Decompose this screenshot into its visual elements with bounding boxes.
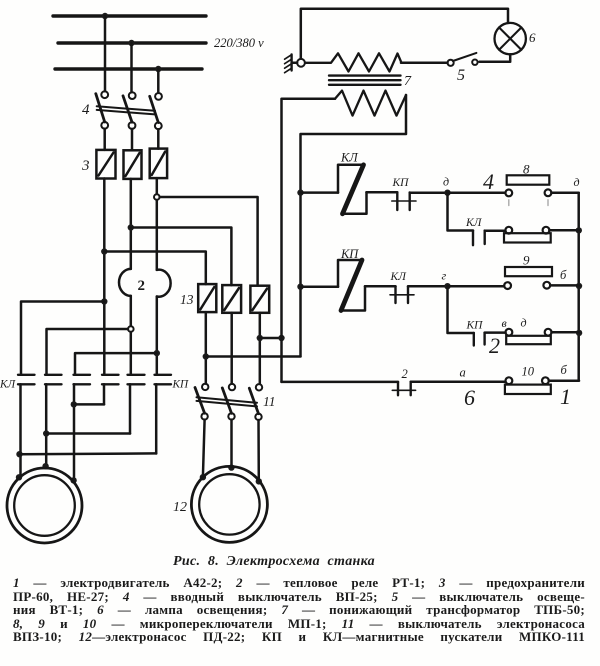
fuse F3c: [150, 149, 167, 179]
svg-text:КЛ: КЛ: [390, 271, 408, 283]
contactor KP main contacts (3 poles): [102, 375, 171, 385]
svg-text:4: 4: [483, 169, 494, 194]
contact KL (NC) in row2: [390, 286, 414, 303]
wire S5 to transformer primary: [401, 62, 448, 65]
junction phase C to KL pole3: [154, 350, 160, 356]
wire control feed to coil bus: [206, 355, 301, 358]
switch S4 blades: [96, 94, 105, 122]
wire microswitch 8 to right bus: [551, 192, 578, 195]
transformer T7 core: [329, 76, 401, 85]
fuse F3a: [96, 150, 115, 179]
transformer T7 lower winding: [335, 91, 406, 116]
junction pole3/pole4 link: [71, 401, 77, 407]
wire phase C to KL pole3: [75, 353, 157, 374]
microswitch 9 actuator bar: [505, 267, 552, 276]
contactor KL main contacts (3 poles): [18, 375, 90, 385]
svg-text:5: 5: [457, 67, 465, 84]
junction bus L2 / phase B: [128, 40, 134, 46]
switch S11 linkage: [197, 397, 258, 406]
junction phase A to KL pole1: [101, 298, 107, 304]
wire coil KL to contact KP: [367, 191, 398, 194]
junction pole1/pole6 link: [16, 451, 22, 457]
wire node d down to aux contact KL: [448, 193, 474, 231]
svg-text:13: 13: [180, 292, 194, 307]
junction coil bus row1: [297, 189, 303, 195]
microswitch 8 terminals: [505, 190, 512, 197]
wire KP pole5 down: [129, 384, 132, 433]
wire microswitch row2b to right bus: [552, 331, 580, 334]
switch S5: [448, 53, 478, 66]
svg-text:КП: КП: [392, 177, 410, 189]
wire phase A to KL pole1: [21, 302, 104, 374]
svg-text:10: 10: [522, 365, 535, 379]
caption: [0, 554, 552, 570]
power bus L2: [58, 41, 206, 44]
motor M1 (main drive): [7, 468, 82, 543]
wire F13c to switch S11: [259, 313, 262, 384]
svg-text:1: 1: [560, 384, 571, 409]
wire link pole3-pole4: [74, 403, 104, 406]
wire tap B to fuse F13b: [131, 228, 232, 286]
fuse F13b: [222, 285, 241, 313]
motor M12 terminal dots: [200, 474, 206, 480]
wire lamp loop top: [301, 9, 508, 59]
microswitch 10 actuator bar: [505, 385, 551, 394]
svg-text:д: д: [521, 316, 527, 330]
svg-text:2: 2: [138, 278, 146, 294]
wire phase C drop: [157, 69, 160, 93]
wire bus to coil KP: [301, 285, 339, 288]
node g junction: [444, 283, 450, 289]
svg-text:11: 11: [263, 394, 276, 409]
wire thermal contact to microswitch 10: [411, 381, 506, 384]
svg-text:КЛ: КЛ: [0, 379, 17, 391]
junction phase B to KL pole2: [128, 326, 134, 332]
junction phase B tap: [128, 224, 134, 230]
wire phase B below fuse (with heater bulge): [130, 179, 133, 375]
wire KL pole1 to motor M1: [19, 384, 22, 476]
power bus L3: [55, 67, 202, 70]
legend text: [13, 576, 585, 644]
wire link pole2-pole5: [46, 432, 130, 435]
wire phase C below fuse (with heater bulge): [156, 178, 159, 375]
wire S4 to fuses F3: [105, 129, 159, 151]
switch S4 linkage: [97, 106, 155, 114]
junction bus L1 / phase A: [102, 13, 108, 19]
wire microswitch 10 to right bus: [549, 379, 579, 382]
microswitch 8 plungers: [509, 200, 548, 206]
wire phase A drop: [104, 16, 107, 91]
wire F13a to switch S11: [205, 312, 208, 384]
svg-text:КП: КП: [172, 379, 190, 391]
wire aux KP to microswitch row2b: [485, 331, 506, 334]
svg-text:КП: КП: [340, 247, 359, 261]
fuse F3b: [124, 150, 142, 179]
wire lower winding right to coil bus: [301, 95, 407, 356]
microswitch row2b actuator bar: [506, 336, 551, 344]
wire contact KP to node d: [410, 191, 448, 194]
wire lamp to switch S5: [480, 54, 511, 62]
wire contact KL to node g: [408, 285, 448, 288]
wire link pole1-pole6: [20, 452, 157, 455]
svg-text:6: 6: [529, 30, 536, 45]
wire node g to microswitch 9: [448, 285, 505, 288]
wires S11 to motor M12: [203, 420, 259, 482]
wire node g down to aux contact KP: [448, 286, 474, 333]
microswitch 10 terminals: [506, 377, 513, 384]
transformer T7 upper winding: [305, 53, 402, 71]
svg-text:КП: КП: [466, 320, 484, 332]
switch S11 upper terminals: [202, 384, 208, 390]
wire tap to control common node: [260, 337, 282, 340]
junction control common node: [278, 335, 284, 341]
svg-text:3: 3: [81, 158, 90, 174]
contact KP (NC) in row1: [392, 192, 416, 210]
contactor coil KP: [338, 260, 365, 311]
wire tap C to fuse F13c: [160, 197, 258, 285]
svg-text:в: в: [502, 316, 507, 330]
svg-text:7: 7: [404, 74, 412, 89]
wire KL pole3 to motor M1: [73, 384, 76, 480]
wire bottom control row left: [282, 381, 399, 384]
wire aux KL to microswitch row1b: [485, 230, 506, 233]
svg-text:б: б: [561, 363, 568, 377]
switch S11 lower terminals: [201, 413, 207, 419]
motor M1 terminal dots: [16, 474, 22, 480]
svg-text:9: 9: [523, 253, 530, 268]
junction control feed on F13a wire: [203, 353, 209, 359]
wire tap A to fuse F13a: [104, 252, 206, 285]
microswitch row1b terminals: [505, 227, 512, 234]
wire microswitch 9 to right bus: [550, 284, 579, 287]
svg-text:д: д: [443, 175, 449, 189]
switch S4 upper terminals: [101, 91, 108, 98]
microswitch row2b terminals: [506, 329, 513, 336]
junction tap to control common: [257, 335, 263, 341]
wire KP pole6 down: [155, 384, 158, 453]
junction right bus row1b: [576, 227, 582, 233]
svg-text:2: 2: [489, 333, 500, 358]
wire bus to coil KL: [301, 191, 339, 194]
junction bus L3 / phase C: [155, 66, 161, 72]
junction coil bus row2: [297, 284, 303, 290]
wire microswitch row1b to right bus: [549, 229, 578, 232]
lamp 6: [495, 23, 526, 54]
svg-text:8: 8: [523, 162, 530, 177]
aux contact KP (NO) row2b: [474, 333, 485, 346]
wire phase B to KL pole2: [47, 329, 129, 374]
motor M12 (electric pump): [191, 466, 267, 542]
wire KP pole4 down: [103, 384, 106, 404]
thermal contact 2 (NC) bottom row: [392, 382, 415, 396]
wire phase A below fuse: [103, 179, 106, 375]
contactor coil KL: [338, 165, 367, 214]
fuse F13c: [250, 286, 269, 313]
junction phase A tap: [101, 248, 107, 254]
ground: [285, 55, 305, 73]
microswitch 8 actuator bar: [507, 175, 550, 184]
svg-text:КЛ: КЛ: [465, 217, 483, 229]
microswitch 9 terminals: [504, 282, 511, 289]
wire F13b to switch S11: [230, 313, 233, 384]
wire KL pole2 to motor M1: [45, 384, 48, 466]
svg-text:6: 6: [464, 385, 475, 410]
wire phase B drop: [130, 43, 133, 92]
thermal relay 2 heater right bulge: [157, 270, 171, 297]
wire node d to microswitch 8: [448, 191, 506, 194]
svg-text:г: г: [442, 269, 447, 283]
aux contact KL (NO) row1b: [473, 231, 485, 246]
svg-text:д: д: [574, 175, 580, 189]
switch S11 blades: [195, 388, 205, 414]
microswitch row1b actuator bar: [504, 233, 551, 242]
power bus L1: [53, 14, 206, 17]
thermal relay 2 heater left bulge: [119, 269, 131, 296]
svg-text:12: 12: [173, 500, 187, 515]
wire lower winding left to control common: [282, 99, 336, 382]
svg-text:2: 2: [402, 367, 408, 381]
fuse F13a: [198, 284, 216, 312]
wire coil KP to contact KL: [365, 285, 396, 288]
svg-text:220/380 v: 220/380 v: [214, 36, 264, 50]
svg-text:б: б: [560, 268, 567, 282]
right bus: [577, 193, 580, 381]
junction pole2/pole5 link: [43, 430, 49, 436]
svg-text:КЛ: КЛ: [340, 151, 359, 165]
junction right bus row2b: [576, 330, 582, 336]
svg-text:а: а: [460, 366, 466, 380]
switch S4 lower terminals: [101, 122, 108, 129]
junction phase C tap (ring): [154, 194, 160, 200]
svg-text:4: 4: [82, 102, 90, 118]
node d junction: [444, 190, 450, 196]
junction right bus row2: [576, 283, 582, 289]
